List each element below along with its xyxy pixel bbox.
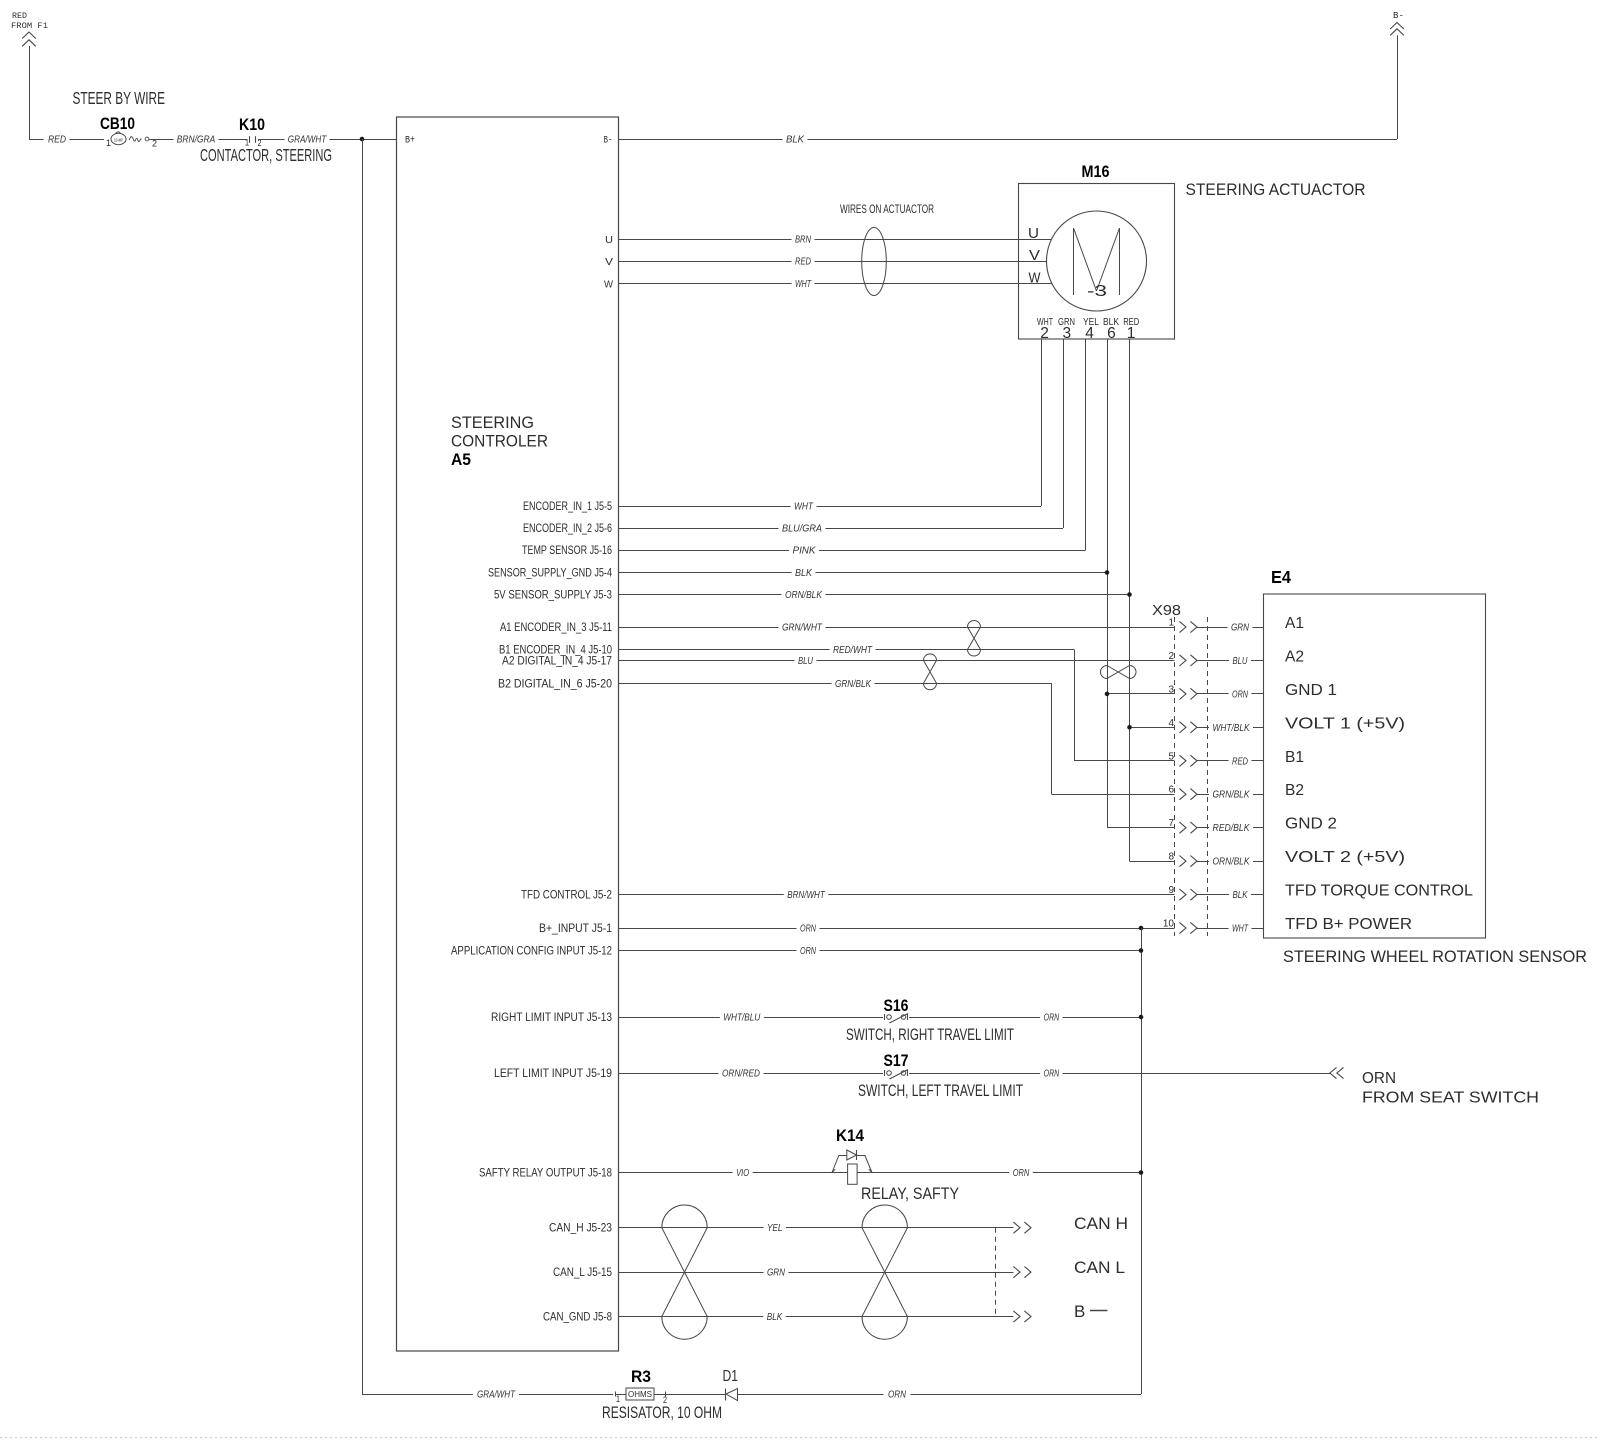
pin LEFT LIMIT INPUT J5-19 bbox=[494, 1068, 612, 1080]
svg-text:M16: M16 bbox=[1082, 162, 1110, 181]
steering controller A5 box bbox=[397, 117, 619, 1351]
wire BRN phase U bbox=[619, 234, 1052, 246]
svg-text:4: 4 bbox=[1168, 718, 1174, 729]
svg-text:A2 DIGITAL_IN_4 J5-17: A2 DIGITAL_IN_4 J5-17 bbox=[502, 655, 612, 667]
sensor pin TFD B+ POWER bbox=[1285, 916, 1412, 933]
svg-text:APPLICATION CONFIG INPUT J5-12: APPLICATION CONFIG INPUT J5-12 bbox=[451, 946, 612, 958]
svg-text:WIRES ON ACTUACTOR: WIRES ON ACTUACTOR bbox=[840, 202, 934, 216]
svg-text:4: 4 bbox=[1085, 325, 1094, 342]
svg-text:7: 7 bbox=[1168, 818, 1174, 829]
svg-text:GRN: GRN bbox=[767, 1267, 785, 1279]
label SWITCH, LEFT TRAVEL LIMIT bbox=[858, 1081, 1023, 1100]
svg-text:CAN L: CAN L bbox=[1074, 1258, 1125, 1277]
pin CAN_L J5-15 bbox=[553, 1267, 612, 1279]
junction ORN branch at X98-10 row bbox=[1139, 926, 1144, 931]
svg-text:B+: B+ bbox=[405, 136, 415, 147]
svg-text:GRN/BLK: GRN/BLK bbox=[835, 678, 872, 690]
sensor pin GND 1 bbox=[1285, 682, 1337, 699]
svg-text:OHMS: OHMS bbox=[628, 1389, 652, 1399]
switch S16 right travel limit bbox=[883, 996, 909, 1023]
svg-text:BRN/GRA: BRN/GRA bbox=[177, 134, 216, 146]
svg-text:PINK: PINK bbox=[793, 545, 817, 557]
sensor E4 designator bbox=[1271, 567, 1291, 587]
svg-text:5V SENSOR_SUPPLY J5-3: 5V SENSOR_SUPPLY J5-3 bbox=[494, 590, 612, 602]
wire PINK temp sensor: M16 pin4 to J5-16 bbox=[619, 339, 1086, 557]
svg-text:LEFT LIMIT INPUT J5-19: LEFT LIMIT INPUT J5-19 bbox=[494, 1068, 612, 1080]
svg-text:B2: B2 bbox=[1285, 782, 1304, 799]
svg-text:ENCODER_IN_2 J5-6: ENCODER_IN_2 J5-6 bbox=[523, 523, 612, 535]
pin U bbox=[605, 235, 613, 246]
wire BLK CAN_GND J5-8 bbox=[619, 1311, 1014, 1323]
svg-text:1: 1 bbox=[616, 1394, 620, 1404]
svg-text:WHT: WHT bbox=[795, 278, 812, 290]
connector X98 pin 2 bbox=[1168, 651, 1263, 667]
svg-text:BLU: BLU bbox=[798, 655, 813, 667]
connector X98 pin 7 bbox=[1168, 818, 1263, 834]
svg-text:STEERING: STEERING bbox=[451, 414, 534, 432]
junction BLK at J5-4 row bbox=[1105, 570, 1110, 575]
wire ORN/RED left limit input J5-19 bbox=[619, 1068, 1331, 1080]
pin RIGHT LIMIT INPUT J5-13 bbox=[491, 1012, 612, 1024]
junction 5V at J5-3 row bbox=[1127, 592, 1132, 597]
wire BLU/GRA encoder_in_2: M16 pin3 to J5-6 bbox=[619, 339, 1064, 535]
wire BLK sensor supply gnd: M16 pin6 down bbox=[619, 339, 1108, 828]
pin TEMP SENSOR J5-16 bbox=[522, 545, 612, 557]
page border dotted bottom bbox=[0, 1437, 1600, 1439]
svg-text:ORN/BLK: ORN/BLK bbox=[785, 589, 823, 601]
wire BLU digital_in_4 J5-17 to X98-2 bbox=[619, 655, 1175, 667]
wire GRA/WHT K10 to A5 B+ bbox=[258, 134, 397, 146]
junction right limit at ORN branch bbox=[1139, 1015, 1144, 1020]
svg-text:A1 ENCODER_IN_3 J5-11: A1 ENCODER_IN_3 J5-11 bbox=[500, 622, 612, 634]
svg-text:K14: K14 bbox=[836, 1126, 864, 1145]
twisted pair marker encoder pair B bbox=[924, 654, 937, 690]
svg-text:GRA/WHT: GRA/WHT bbox=[477, 1389, 516, 1401]
svg-text:TFD CONTROL J5-2: TFD CONTROL J5-2 bbox=[521, 890, 612, 902]
sensor pin A1 bbox=[1285, 615, 1304, 632]
wire RED phase V bbox=[619, 256, 1047, 268]
svg-text:RESISATOR, 10 OHM: RESISATOR, 10 OHM bbox=[602, 1404, 722, 1422]
junction relay row at ORN branch bbox=[1139, 1170, 1144, 1175]
sensor pin A2 bbox=[1285, 648, 1304, 665]
node ORN from seat switch bbox=[1330, 1067, 1539, 1106]
label RELAY, SAFTY bbox=[861, 1184, 959, 1203]
svg-text:ORN: ORN bbox=[888, 1389, 906, 1401]
connector X98 label bbox=[1152, 602, 1181, 619]
node RED FROM F1 bbox=[11, 11, 48, 46]
junction at config input row bbox=[1139, 948, 1144, 953]
svg-text:ORN/RED: ORN/RED bbox=[722, 1068, 760, 1080]
svg-text:A2: A2 bbox=[1285, 648, 1304, 665]
svg-text:STEERING ACTUACTOR: STEERING ACTUACTOR bbox=[1186, 180, 1366, 199]
svg-text:FROM F1: FROM F1 bbox=[11, 21, 48, 31]
svg-text:TEMP SENSOR J5-16: TEMP SENSOR J5-16 bbox=[522, 545, 612, 557]
wire ORN gnd1 to X98-3 bbox=[1107, 693, 1175, 695]
sensor pin GND 2 bbox=[1285, 816, 1337, 833]
wire RED 5V supply: M16 pin1 down bbox=[619, 339, 1130, 861]
svg-text:10: 10 bbox=[1163, 919, 1175, 930]
svg-text:2: 2 bbox=[1168, 651, 1174, 662]
svg-text:WHT/BLU: WHT/BLU bbox=[723, 1012, 760, 1024]
svg-text:6: 6 bbox=[1168, 785, 1174, 796]
svg-text:VOLT 1 (+5V): VOLT 1 (+5V) bbox=[1285, 715, 1405, 732]
svg-text:GRA/WHT: GRA/WHT bbox=[288, 134, 328, 146]
wire ORN branch down right side bbox=[1141, 928, 1143, 1394]
svg-text:BRN/WHT: BRN/WHT bbox=[787, 889, 826, 901]
svg-text:WHT: WHT bbox=[794, 501, 814, 513]
pin W bbox=[604, 280, 614, 291]
connector X98 pin 6 bbox=[1168, 785, 1263, 801]
node CAN H bbox=[1013, 1214, 1128, 1233]
wire GRN/WHT encoder_in_3 J5-11 to X98-1 bbox=[619, 622, 1175, 634]
svg-text:CAN H: CAN H bbox=[1074, 1214, 1128, 1233]
svg-text:SWITCH, RIGHT TRAVEL LIMIT: SWITCH, RIGHT TRAVEL LIMIT bbox=[846, 1025, 1014, 1044]
relay K14 coil with diode bbox=[832, 1126, 872, 1184]
wire GRA/WHT drop to resistor loop bbox=[362, 139, 364, 1394]
label SWITCH, RIGHT TRAVEL LIMIT bbox=[846, 1025, 1014, 1044]
connector X98 dashed body bbox=[1175, 617, 1208, 936]
svg-text:RELAY, SAFTY: RELAY, SAFTY bbox=[861, 1184, 959, 1203]
svg-text:VIO: VIO bbox=[736, 1167, 749, 1179]
svg-text:YEL: YEL bbox=[767, 1222, 783, 1234]
svg-text:5: 5 bbox=[1168, 751, 1174, 762]
label WIRES ON ACTUACTOR bbox=[840, 202, 934, 216]
svg-text:1: 1 bbox=[1168, 618, 1174, 629]
CAN connector dashed body bbox=[995, 1228, 997, 1317]
svg-text:ORN: ORN bbox=[800, 945, 816, 957]
svg-text:8: 8 bbox=[1168, 852, 1174, 863]
pin A1 ENCODER_IN_3 J5-11 bbox=[500, 622, 612, 634]
svg-text:GRN: GRN bbox=[1231, 622, 1249, 634]
svg-text:B: B bbox=[1074, 1302, 1085, 1321]
wire GRN/BLK digital_in_6 J5-20 to X98-6 bbox=[619, 678, 1175, 795]
svg-text:BLK: BLK bbox=[786, 134, 805, 146]
wire BRN/WHT TFD control J5-2 to X98-9 bbox=[619, 889, 1175, 901]
connector X98 pin 9 bbox=[1168, 885, 1263, 901]
svg-text:X98: X98 bbox=[1152, 602, 1181, 619]
svg-text:WHT: WHT bbox=[1232, 923, 1249, 935]
svg-text:ORN: ORN bbox=[1232, 688, 1248, 700]
svg-text:U: U bbox=[605, 235, 613, 246]
svg-text:K10: K10 bbox=[239, 115, 265, 134]
svg-text:D1: D1 bbox=[723, 1368, 739, 1385]
wire ORN D1 to ORN branch bbox=[738, 1389, 1142, 1401]
svg-text:B2 DIGITAL_IN_6 J5-20: B2 DIGITAL_IN_6 J5-20 bbox=[498, 678, 612, 690]
svg-text:1: 1 bbox=[1127, 325, 1136, 342]
svg-text:TFD B+ POWER: TFD B+ POWER bbox=[1285, 916, 1412, 933]
wire RED from F1 arrow down to row bbox=[29, 46, 31, 139]
wire WHT encoder_in_1: M16 pin2 to J5-5 bbox=[619, 339, 1042, 513]
node B- top right bbox=[1390, 10, 1404, 35]
connector X98 pin 1 bbox=[1168, 618, 1263, 634]
motor pin V bbox=[1029, 247, 1040, 264]
wire ORN B+ input J5-1 to X98-10 bbox=[619, 923, 1175, 935]
connector X98 pin 4 bbox=[1168, 718, 1263, 734]
svg-text:-3: -3 bbox=[1087, 283, 1107, 300]
svg-text:B1: B1 bbox=[1285, 749, 1304, 766]
pin A2 DIGITAL_IN_4 J5-17 bbox=[502, 655, 612, 667]
label STEER BY WIRE bbox=[73, 88, 166, 108]
svg-text:RIGHT LIMIT INPUT J5-13: RIGHT LIMIT INPUT J5-13 bbox=[491, 1012, 612, 1024]
circuit breaker CB10, 15AMP bbox=[100, 114, 157, 149]
svg-text:A5: A5 bbox=[451, 450, 471, 469]
pin SAFTY RELAY OUTPUT J5-18 bbox=[479, 1168, 612, 1180]
svg-text:E4: E4 bbox=[1271, 567, 1291, 587]
wire GRN CAN_L J5-15 bbox=[619, 1267, 1014, 1279]
svg-text:STEER BY WIRE: STEER BY WIRE bbox=[73, 88, 166, 108]
diode D1 bbox=[723, 1368, 739, 1401]
svg-text:ORN: ORN bbox=[1044, 1012, 1060, 1024]
connector X98 pin 3 bbox=[1168, 684, 1263, 700]
motor M16 circle symbol bbox=[1047, 211, 1147, 311]
label RESISATOR, 10 OHM bbox=[602, 1404, 722, 1422]
svg-text:ORN: ORN bbox=[1044, 1068, 1060, 1080]
wire WHT/BLU right limit input J5-13 bbox=[619, 1012, 1142, 1024]
wire RED to CB10 bbox=[29, 134, 104, 146]
svg-text:GRN/BLK: GRN/BLK bbox=[1213, 789, 1251, 801]
svg-text:RED: RED bbox=[48, 134, 66, 146]
sensor pin B2 bbox=[1285, 782, 1304, 799]
label STEERING WHEEL ROTATION SENSOR bbox=[1283, 948, 1587, 966]
wire RED/WHT encoder_in_4 J5-10 to X98-5 bbox=[619, 644, 1175, 761]
pin ENCODER_IN_2 J5-6 bbox=[523, 523, 612, 535]
pin TFD CONTROL J5-2 bbox=[521, 890, 612, 902]
svg-text:SAFTY RELAY OUTPUT J5-18: SAFTY RELAY OUTPUT J5-18 bbox=[479, 1168, 612, 1180]
steering wheel rotation sensor E4 box bbox=[1264, 594, 1486, 938]
junction at GRA/WHT branch bbox=[360, 137, 365, 142]
wire RED/BLK gnd2 to X98-7 bbox=[1107, 827, 1175, 829]
wire ORN application config input J5-12 bbox=[619, 945, 1142, 957]
connector X98 pin 10 bbox=[1163, 919, 1264, 935]
steering actuator M16 box bbox=[1019, 184, 1175, 340]
motor pin U bbox=[1028, 225, 1039, 242]
motor pin W bbox=[1029, 270, 1042, 287]
svg-text:3: 3 bbox=[1168, 684, 1174, 695]
wire ORN/BLK volt2 to X98-8 bbox=[1130, 861, 1175, 863]
motor M16 designator bbox=[1082, 162, 1110, 181]
twisted cable marker CAN at connector bbox=[862, 1205, 907, 1339]
svg-text:SWITCH, LEFT TRAVEL LIMIT: SWITCH, LEFT TRAVEL LIMIT bbox=[858, 1081, 1023, 1100]
contactor K10 contact bbox=[239, 115, 265, 148]
switch S17 left travel limit bbox=[883, 1051, 909, 1079]
pin B2 DIGITAL_IN_6 J5-20 bbox=[498, 678, 612, 690]
svg-text:GRN/WHT: GRN/WHT bbox=[782, 622, 823, 634]
svg-text:ENCODER_IN_1 J5-5: ENCODER_IN_1 J5-5 bbox=[523, 501, 612, 513]
label CONTACTOR, STEERING bbox=[200, 145, 332, 165]
wire R3 to D1 bbox=[666, 1394, 726, 1396]
svg-text:BLK: BLK bbox=[1233, 889, 1249, 901]
resistor R3 10 OHM bbox=[616, 1367, 668, 1405]
wire GRA/WHT bottom return bbox=[362, 1389, 613, 1401]
svg-text:9: 9 bbox=[1168, 885, 1174, 896]
pin CAN_GND J5-8 bbox=[543, 1312, 612, 1324]
svg-text:RED/WHT: RED/WHT bbox=[833, 644, 873, 656]
node B- CAN ground bbox=[1013, 1302, 1107, 1322]
svg-text:BRN: BRN bbox=[795, 234, 811, 246]
svg-text:1: 1 bbox=[106, 138, 111, 148]
svg-text:B+_INPUT J5-1: B+_INPUT J5-1 bbox=[539, 923, 612, 935]
motor pin wire colors WHT GRN YEL BLK RED bbox=[1037, 316, 1139, 328]
twisted pair marker encoder pair A bbox=[968, 621, 981, 657]
wire YEL CAN_H J5-23 bbox=[619, 1222, 1014, 1234]
pin V bbox=[605, 257, 613, 268]
connector X98 pin 5 bbox=[1168, 751, 1263, 767]
pin B1 ENCODER_IN_4 J5-10 bbox=[499, 645, 612, 657]
svg-text:GND 2: GND 2 bbox=[1285, 816, 1337, 833]
label STEERING ACTUACTOR bbox=[1186, 180, 1366, 199]
svg-text:CAN_H J5-23: CAN_H J5-23 bbox=[549, 1223, 612, 1235]
twisted pair marker sensor verticals bbox=[1101, 666, 1137, 679]
sensor pin B1 bbox=[1285, 749, 1304, 766]
wire BLK B- from A5 to arrow bbox=[619, 35, 1398, 145]
pin CAN_H J5-23 bbox=[549, 1223, 612, 1235]
svg-text:B-: B- bbox=[1393, 10, 1404, 21]
svg-text:A1: A1 bbox=[1285, 615, 1304, 632]
sensor pin VOLT 2 (+5V) bbox=[1285, 849, 1405, 866]
svg-text:6: 6 bbox=[1107, 325, 1116, 342]
wire WHT phase W bbox=[619, 278, 1052, 290]
wire WHT/BLK volt1 to X98-4 bbox=[1130, 727, 1175, 729]
svg-text:SENSOR_SUPPLY_GND J5-4: SENSOR_SUPPLY_GND J5-4 bbox=[488, 568, 612, 580]
sensor pin VOLT 1 (+5V) bbox=[1285, 715, 1405, 732]
svg-text:B-: B- bbox=[604, 136, 613, 147]
svg-text:VOLT 2 (+5V): VOLT 2 (+5V) bbox=[1285, 849, 1405, 866]
label STEERING CONTROLER bbox=[451, 414, 548, 451]
connector X98 pin 8 bbox=[1168, 852, 1263, 868]
controller A5 designator bbox=[451, 450, 471, 469]
svg-text:ORN: ORN bbox=[1013, 1167, 1030, 1179]
svg-text:CAN_GND J5-8: CAN_GND J5-8 bbox=[543, 1312, 612, 1324]
svg-text:FROM SEAT SWITCH: FROM SEAT SWITCH bbox=[1362, 1090, 1539, 1107]
svg-text:15AMP: 15AMP bbox=[114, 138, 123, 143]
pin B+_INPUT J5-1 bbox=[539, 923, 612, 935]
svg-text:RED/BLK: RED/BLK bbox=[1213, 822, 1251, 834]
pin B- bbox=[604, 136, 613, 147]
svg-text:BLU: BLU bbox=[1233, 655, 1248, 667]
svg-text:ORN/BLK: ORN/BLK bbox=[1213, 856, 1251, 868]
svg-text:WHT/BLK: WHT/BLK bbox=[1213, 722, 1251, 734]
svg-text:R3: R3 bbox=[631, 1367, 651, 1386]
svg-text:CONTACTOR, STEERING: CONTACTOR, STEERING bbox=[200, 145, 332, 165]
svg-text:V: V bbox=[605, 257, 613, 268]
sensor pin TFD TORQUE CONTROL bbox=[1285, 883, 1473, 900]
svg-text:RED: RED bbox=[795, 256, 811, 268]
svg-text:CAN_L J5-15: CAN_L J5-15 bbox=[553, 1267, 612, 1279]
twisted cable marker CAN at controller bbox=[662, 1205, 707, 1339]
cable ellipse around actuator wires bbox=[862, 228, 887, 296]
pin APPLICATION CONFIG INPUT J5-12 bbox=[451, 946, 612, 958]
svg-text:BLK: BLK bbox=[767, 1311, 783, 1323]
junction gnd at X98-3 row bbox=[1105, 692, 1110, 697]
pin B+ bbox=[405, 136, 415, 147]
svg-text:CONTROLER: CONTROLER bbox=[451, 433, 548, 451]
svg-text:W: W bbox=[604, 280, 614, 291]
wire BRN/GRA CB10 to K10 bbox=[149, 134, 247, 146]
svg-text:RED: RED bbox=[12, 11, 27, 21]
svg-text:GND 1: GND 1 bbox=[1285, 682, 1337, 699]
svg-text:RED: RED bbox=[1232, 755, 1248, 767]
node CAN L bbox=[1013, 1258, 1125, 1278]
svg-text:ORN: ORN bbox=[800, 923, 816, 935]
pin SENSOR_SUPPLY_GND J5-4 bbox=[488, 568, 612, 580]
pin 5V SENSOR_SUPPLY J5-3 bbox=[494, 590, 612, 602]
svg-text:BLK: BLK bbox=[795, 567, 813, 579]
svg-text:CB10: CB10 bbox=[100, 114, 135, 133]
svg-text:TFD TORQUE CONTROL: TFD TORQUE CONTROL bbox=[1285, 883, 1473, 900]
svg-text:BLU/GRA: BLU/GRA bbox=[782, 523, 822, 535]
pin ENCODER_IN_1 J5-5 bbox=[523, 501, 612, 513]
svg-text:ORN: ORN bbox=[1362, 1070, 1396, 1087]
motor pin numbers 2 3 4 6 1 bbox=[1040, 325, 1135, 342]
wire VIO safety relay output J5-18 bbox=[619, 1167, 1142, 1179]
svg-text:STEERING WHEEL ROTATION SENSOR: STEERING WHEEL ROTATION SENSOR bbox=[1283, 948, 1587, 966]
junction 5V at X98-4 row bbox=[1127, 725, 1132, 730]
